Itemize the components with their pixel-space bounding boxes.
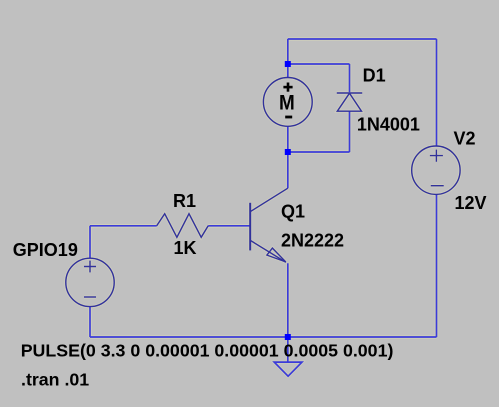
GPIO19 minus sign xyxy=(84,296,96,298)
svg-text:D1: D1 xyxy=(363,65,386,85)
wire V2 top lead xyxy=(436,39,438,146)
wire top rail xyxy=(288,38,437,40)
wire motor bottom node to diode bottom xyxy=(288,151,350,153)
diode D1 triangle xyxy=(337,93,361,111)
wire emitter lead xyxy=(287,263,289,337)
wire diode top lead xyxy=(349,64,351,92)
wire V2 bottom lead xyxy=(436,194,438,337)
wire collector lead xyxy=(287,152,289,188)
GPIO19 plus sign xyxy=(84,261,96,273)
motor M1 body circle xyxy=(263,78,312,127)
svg-text:1N4001: 1N4001 xyxy=(357,115,420,135)
svg-text:R1: R1 xyxy=(173,191,196,211)
svg-text:1K: 1K xyxy=(174,238,197,258)
V2 minus sign xyxy=(431,185,444,187)
motor minus terminal mark xyxy=(285,116,292,119)
svg-text:GPIO19: GPIO19 xyxy=(13,240,78,260)
svg-text:M: M xyxy=(279,92,295,115)
wire diode bottom lead xyxy=(349,111,351,152)
transistor Q1 emitter diagonal xyxy=(250,240,286,262)
svg-text:V2: V2 xyxy=(454,129,476,149)
svg-text:.tran .01: .tran .01 xyxy=(21,369,89,389)
transistor Q1 collector diagonal xyxy=(250,188,288,212)
svg-text:12V: 12V xyxy=(455,193,487,213)
voltage source GPIO19 circle xyxy=(66,258,114,306)
svg-text:2N2222: 2N2222 xyxy=(281,230,344,250)
wire GPIO19 top lead xyxy=(89,226,91,258)
motor plus terminal mark xyxy=(283,83,292,92)
wire base right segment xyxy=(208,225,250,227)
halo underlay (scaling artifact emulation) xyxy=(90,39,437,362)
wire bottom rail xyxy=(90,336,437,338)
junction node at motor top xyxy=(285,61,291,67)
svg-text:PULSE(0 3.3 0 0.00001 0.00001: PULSE(0 3.3 0 0.00001 0.00001 0.0005 0.0… xyxy=(21,340,394,360)
wire motor top stub xyxy=(287,64,289,78)
resistor R1 zigzag xyxy=(157,214,209,238)
wire top-left vertical to motor node xyxy=(287,39,289,64)
diode D1 cathode bar xyxy=(337,92,362,94)
junction node at ground rail xyxy=(285,334,291,340)
voltage source V2 circle xyxy=(412,146,460,194)
wire base left segment xyxy=(90,225,157,227)
svg-text:Q1: Q1 xyxy=(281,202,305,222)
V2 plus sign xyxy=(430,150,443,162)
wire motor node to diode top xyxy=(288,63,350,65)
wire GPIO19 bottom lead xyxy=(89,307,91,337)
wire ground stem xyxy=(287,337,289,362)
wire motor bottom stub xyxy=(287,126,289,152)
transistor Q1 emitter arrow xyxy=(267,248,286,262)
transistor Q1 base bar xyxy=(249,203,251,251)
ground symbol triangle xyxy=(274,362,302,376)
junction node at motor bottom xyxy=(285,149,291,155)
